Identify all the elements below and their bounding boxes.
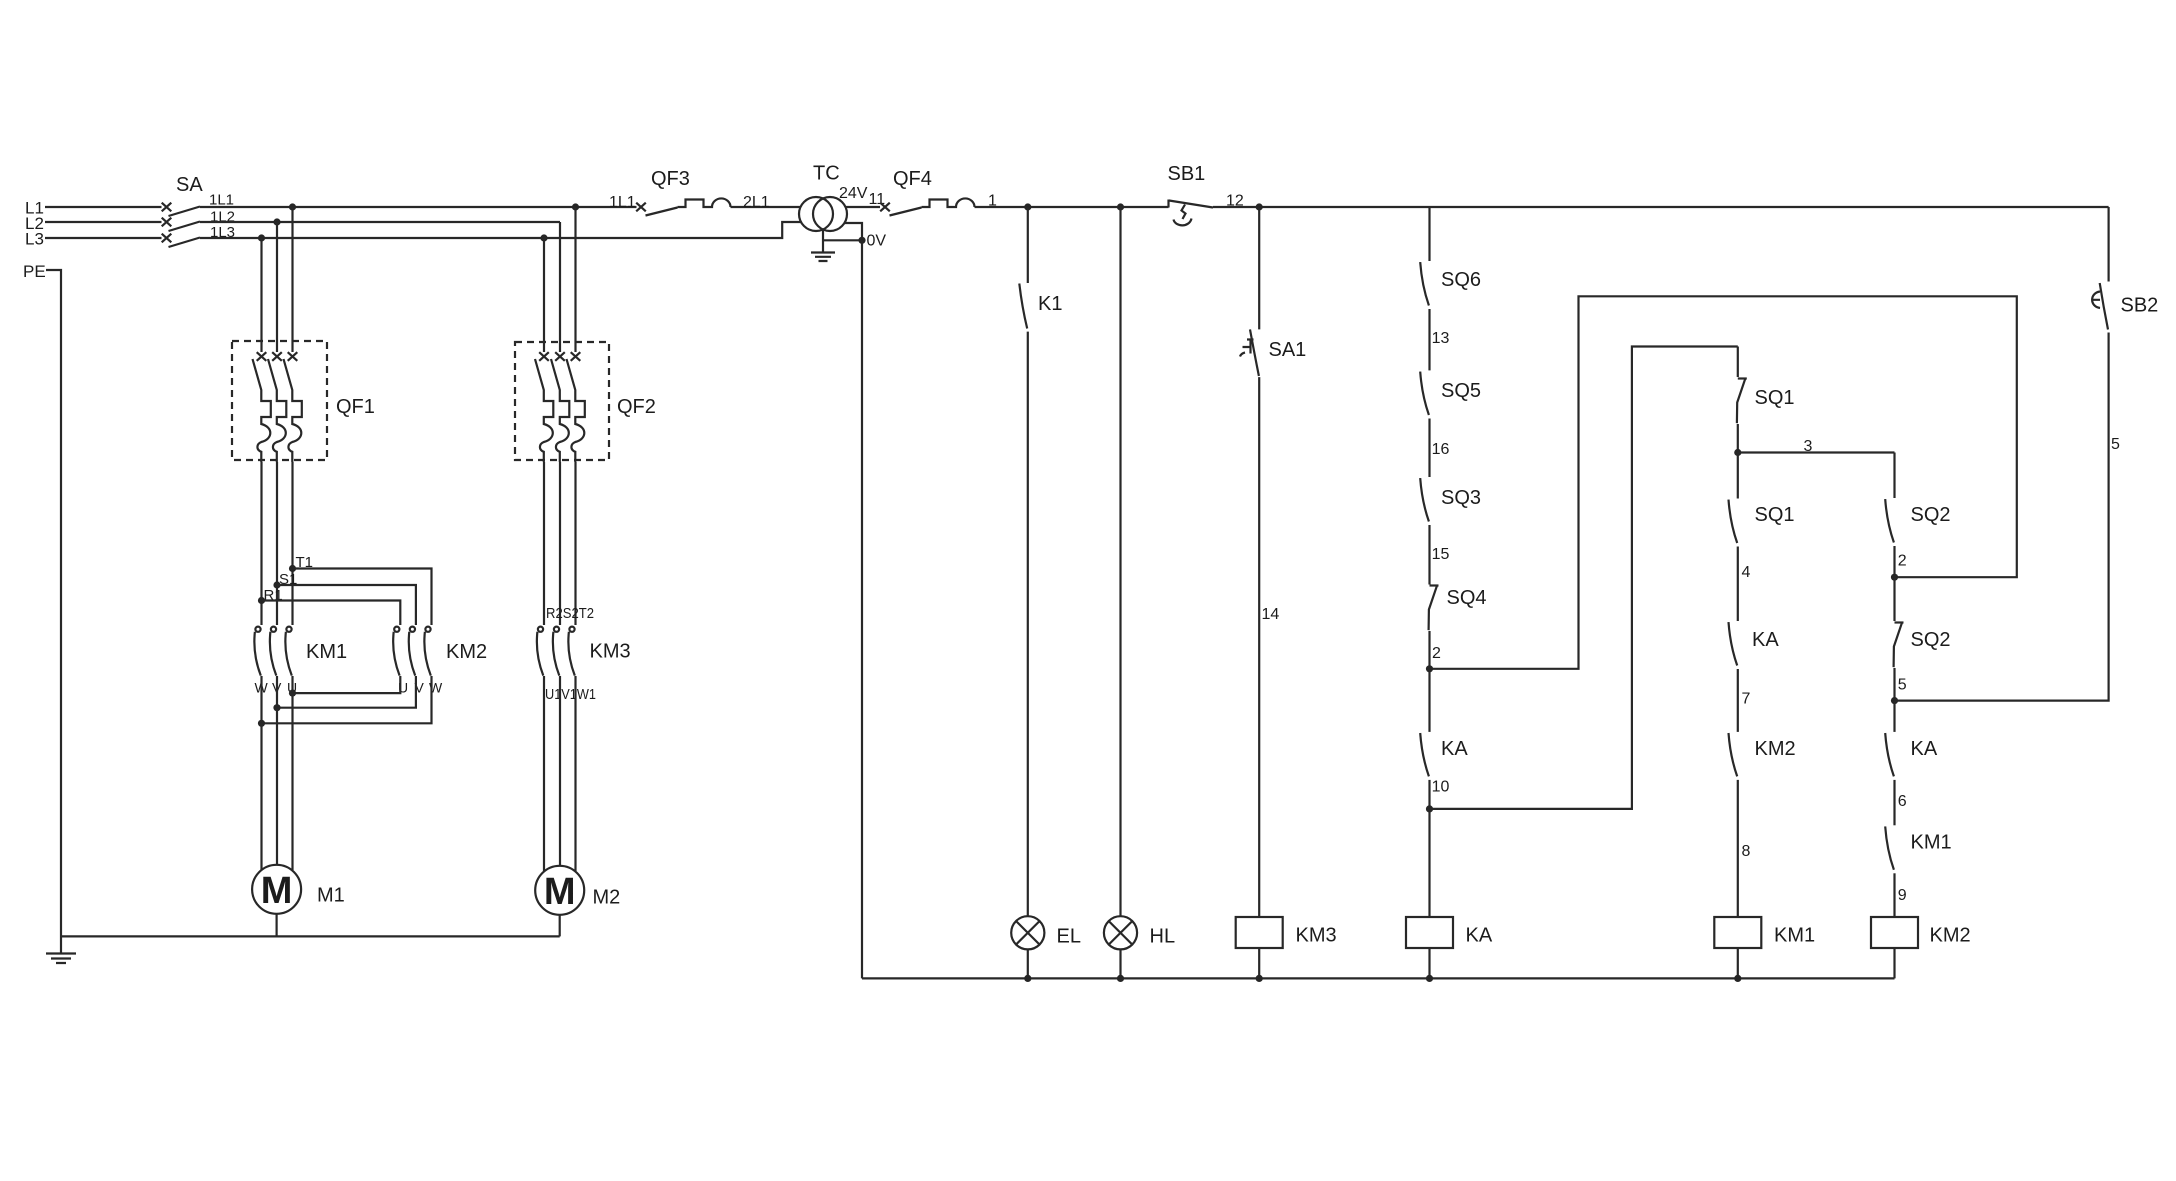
wire SQ1 chain top xyxy=(1737,347,1739,378)
contactor KM2 pole 1 xyxy=(393,627,399,676)
breaker QF2 dashed box xyxy=(515,342,609,460)
svg-text:KA: KA xyxy=(1441,738,1468,760)
switch SA pole 1 xyxy=(162,203,172,212)
svg-text:KA: KA xyxy=(1466,925,1493,947)
wire 1L2 xyxy=(200,221,560,223)
svg-text:SQ6: SQ6 xyxy=(1441,269,1481,291)
breaker QF3 xyxy=(636,198,730,215)
wire SQ5-SQ3 xyxy=(1428,419,1430,478)
junction dot KM3 bus xyxy=(1256,975,1263,982)
wire SQ4 to node 2 xyxy=(1428,631,1430,669)
lamp HL xyxy=(1104,916,1137,949)
wire SQ3-SQ4 xyxy=(1428,525,1430,585)
svg-text:KM1: KM1 xyxy=(1774,925,1815,947)
svg-text:10: 10 xyxy=(1432,779,1450,796)
svg-text:PE: PE xyxy=(23,262,46,281)
svg-text:KA: KA xyxy=(1911,738,1938,760)
pushbutton SB1 (NC) xyxy=(1169,200,1214,226)
svg-text:SQ2: SQ2 xyxy=(1911,504,1951,526)
svg-text:7: 7 xyxy=(1742,691,1751,708)
svg-text:QF2: QF2 xyxy=(617,396,656,418)
wire M2 to PE bus xyxy=(559,915,561,937)
wire HL branch xyxy=(1119,207,1121,916)
wire SQ6-SQ5 xyxy=(1428,309,1430,370)
breaker QF2 pole 3 xyxy=(567,352,585,462)
coil KA xyxy=(1406,917,1453,948)
svg-text:KM1: KM1 xyxy=(1911,832,1952,854)
wire K1 to EL xyxy=(1027,332,1029,917)
junction dot KM3 branch xyxy=(1256,203,1263,210)
relay contact KA (NO, SQ2 chain) xyxy=(1885,733,1894,776)
svg-text:M: M xyxy=(261,870,293,912)
junction dot R1 xyxy=(258,597,265,604)
svg-text:QF3: QF3 xyxy=(651,168,690,190)
limit switch SQ5 (NO) xyxy=(1420,372,1429,415)
wire SQ1 to KA xyxy=(1737,547,1739,622)
junction dot 0V xyxy=(858,237,865,244)
svg-text:M: M xyxy=(544,871,576,913)
wire KM1 coil to bus xyxy=(1737,948,1739,978)
wire K1 branch upper xyxy=(1027,207,1029,283)
junction dot S1 xyxy=(273,581,280,588)
wire drop to QF1 pole3 xyxy=(291,207,293,352)
breaker QF1 pole 2 xyxy=(268,352,286,462)
wire TC center tap xyxy=(822,230,824,253)
wire node10 link to SQ1 chain xyxy=(1430,347,1738,809)
breaker QF1 pole 3 xyxy=(284,352,302,462)
motor M2 xyxy=(535,866,584,915)
contactor KM3 pole 3 xyxy=(568,627,574,676)
wire KM3 branch upper xyxy=(1258,207,1260,329)
svg-text:KM3: KM3 xyxy=(1296,925,1337,947)
svg-text:SA: SA xyxy=(176,174,203,196)
svg-text:13: 13 xyxy=(1432,330,1450,347)
relay contact KA (NO, SQ1 chain) xyxy=(1729,622,1738,665)
wire drop to QF2 pole2 xyxy=(559,222,561,352)
wire TC secondary bottom to 0V xyxy=(844,223,862,240)
junction dot L3 tap QF1 xyxy=(258,234,265,241)
svg-text:8: 8 xyxy=(1742,843,1751,860)
pushbutton SB2 (NO) xyxy=(2092,283,2108,330)
svg-text:KM2: KM2 xyxy=(1755,738,1796,760)
svg-text:9: 9 xyxy=(1898,887,1907,904)
junction dot L1 tap QF2 xyxy=(572,203,579,210)
wire SQ6 branch upper xyxy=(1428,207,1430,261)
svg-text:QF1: QF1 xyxy=(336,396,375,418)
wire drop to QF1 pole1 xyxy=(260,238,262,352)
junction dot L3 tap QF2 xyxy=(540,234,547,241)
contactor aux contact KM2 (NO) xyxy=(1729,733,1738,776)
junction dot node 5 xyxy=(1891,697,1898,704)
junction dot U xyxy=(289,690,296,697)
svg-text:QF4: QF4 xyxy=(893,168,932,190)
wire node5 to KA xyxy=(1893,701,1895,732)
junction dot L1 tap QF1 xyxy=(289,203,296,210)
wire control bottom bus xyxy=(862,977,1895,979)
wire KM1 pole3 to M1 xyxy=(291,693,293,870)
svg-text:5: 5 xyxy=(1898,677,1907,694)
svg-text:2: 2 xyxy=(1432,645,1441,662)
wire node2b to SQ2 NC xyxy=(1893,577,1895,621)
junction dot EL bus xyxy=(1024,975,1031,982)
wire QF1 pole2 to KM1 xyxy=(276,462,278,625)
svg-text:HL: HL xyxy=(1150,926,1176,948)
switch SA1 (NC) xyxy=(1240,329,1259,376)
wire KM1 to KM2 coil xyxy=(1893,873,1895,917)
junction dot HL bus xyxy=(1117,975,1124,982)
wire drop to QF1 pole2 xyxy=(276,222,278,352)
svg-text:14: 14 xyxy=(1262,606,1280,623)
transformer TC secondary winding xyxy=(813,197,847,231)
junction dot node 3 xyxy=(1734,449,1741,456)
coil KM2 xyxy=(1871,917,1918,948)
wire L2 incoming xyxy=(45,221,162,223)
svg-text:M1: M1 xyxy=(317,885,345,907)
limit switch SQ2 (NO) xyxy=(1885,499,1894,542)
svg-text:U1V1W1: U1V1W1 xyxy=(545,686,596,703)
ground TC earth symbol xyxy=(811,253,835,262)
breaker QF2 pole 1 xyxy=(535,352,553,462)
wire S1 to KM2 pole2 xyxy=(277,585,416,625)
switch SA pole 2 xyxy=(162,218,172,227)
wire control bus top xyxy=(975,206,1169,208)
wire 1L1 bus xyxy=(200,206,637,208)
coil KM1 xyxy=(1714,917,1761,948)
svg-text:SQ4: SQ4 xyxy=(1447,587,1487,609)
wire L1 incoming xyxy=(45,206,162,208)
limit switch SQ4 (NC) xyxy=(1429,585,1439,630)
svg-text:L3: L3 xyxy=(25,230,44,249)
wire SQ2 NC to node 5 xyxy=(1893,668,1895,701)
wire KM3 pole1 to M2 xyxy=(543,676,545,871)
wire control bus to SB2 xyxy=(1213,206,2109,208)
wire node3 link to SQ2 chain xyxy=(1738,451,1895,453)
svg-text:2: 2 xyxy=(1898,553,1907,570)
wire L3 incoming xyxy=(45,237,162,239)
junction dot W xyxy=(258,720,265,727)
limit switch SQ1 (NC) xyxy=(1737,378,1747,423)
wire drop to QF2 pole3 xyxy=(574,207,576,352)
wire KM3 pole2 to M2 xyxy=(559,676,561,866)
coil KM3 xyxy=(1236,917,1283,948)
breaker QF4 xyxy=(880,198,974,215)
wire QF2 pole2 to KM3 xyxy=(559,462,561,625)
wire TC secondary to QF4 xyxy=(846,206,881,208)
relay contact KA (NO, SQ6 chain) xyxy=(1420,733,1429,776)
limit switch SQ3 (NO) xyxy=(1420,478,1429,521)
svg-text:KM2: KM2 xyxy=(1930,925,1971,947)
wire KM1 W to KM2 bottom3 xyxy=(262,676,432,723)
svg-text:SB2: SB2 xyxy=(2121,295,2159,317)
wire PE bus xyxy=(61,935,560,937)
wire KA to KM2 contact xyxy=(1737,669,1739,732)
wire SQ2 to node 2b xyxy=(1893,546,1895,577)
contact K1 (NO) xyxy=(1019,284,1027,329)
wire M1 to PE bus xyxy=(276,914,278,937)
contactor KM2 pole 2 xyxy=(409,627,415,676)
wire QF2 pole1 to KM3 xyxy=(543,462,545,625)
breaker QF2 pole 2 xyxy=(551,352,569,462)
wire KA coil to bus xyxy=(1428,948,1430,978)
svg-text:EL: EL xyxy=(1057,926,1081,948)
contactor KM3 pole 1 xyxy=(537,627,543,676)
junction dot K1 branch xyxy=(1024,203,1031,210)
junction dot V xyxy=(273,704,280,711)
transformer TC primary winding xyxy=(799,197,833,231)
wire KA to node 10 xyxy=(1428,780,1430,809)
wire KM1 pole1 to M1 xyxy=(260,723,262,870)
wire QF3 to TC xyxy=(731,206,802,208)
contactor KM1 pole 2 xyxy=(270,627,276,676)
wire node3 to SQ1 NO xyxy=(1737,453,1739,499)
wire KM2 to KM1 coil xyxy=(1737,780,1739,917)
wire KM1 V to KM2 bottom2 xyxy=(277,676,416,708)
wire KM3 pole3 to M2 xyxy=(574,676,576,871)
svg-text:4: 4 xyxy=(1742,564,1751,581)
wire KA to KM1 contact xyxy=(1893,780,1895,825)
svg-text:KA: KA xyxy=(1752,629,1779,651)
contactor KM1 pole 1 xyxy=(254,627,260,676)
svg-text:SQ3: SQ3 xyxy=(1441,487,1481,509)
wire EL to bus xyxy=(1027,949,1029,978)
breaker QF1 dashed box xyxy=(232,341,327,460)
wire node2 link to SQ2 chain xyxy=(1430,296,2017,669)
contactor aux contact KM1 (NO) xyxy=(1885,826,1894,869)
wire SQ1 to node 3 xyxy=(1737,424,1739,453)
contactor KM1 pole 3 xyxy=(285,627,291,676)
wire KM2 coil to bus corner xyxy=(1893,948,1895,978)
svg-text:0V: 0V xyxy=(867,233,887,250)
contactor KM2 pole 3 xyxy=(424,627,430,676)
breaker QF1 pole 1 xyxy=(253,352,271,462)
svg-text:SQ1: SQ1 xyxy=(1755,504,1795,526)
wire 0V rail xyxy=(861,240,863,978)
svg-text:K1: K1 xyxy=(1038,293,1062,315)
wire PE xyxy=(46,270,61,953)
limit switch SQ2 (NC) xyxy=(1894,622,1904,667)
svg-text:6: 6 xyxy=(1898,793,1907,810)
ground PE earth symbol xyxy=(46,954,76,964)
svg-text:16: 16 xyxy=(1432,441,1450,458)
junction dot HL branch xyxy=(1117,203,1124,210)
motor M1 xyxy=(252,865,301,914)
wire QF2 pole3 to KM3 xyxy=(574,462,576,625)
wire KM3 coil to bus xyxy=(1258,948,1260,978)
wire T1 to KM2 pole3 xyxy=(293,569,432,626)
wire node2 to KA xyxy=(1428,669,1430,732)
svg-text:KM3: KM3 xyxy=(590,641,631,663)
wire KM1 pole2 to M1 xyxy=(276,708,278,865)
svg-text:15: 15 xyxy=(1432,546,1450,563)
junction dot KM1 bus xyxy=(1734,975,1741,982)
svg-text:KM1: KM1 xyxy=(306,641,347,663)
svg-text:SQ1: SQ1 xyxy=(1755,387,1795,409)
wire SB2 branch upper xyxy=(2108,207,2110,282)
svg-text:SQ2: SQ2 xyxy=(1911,629,1951,651)
junction dot node 2b xyxy=(1891,574,1898,581)
wire node10 to KA coil xyxy=(1428,809,1430,917)
wire SA1 to KM3 coil xyxy=(1258,377,1260,917)
wire QF1 pole3 to KM1 xyxy=(291,462,293,625)
svg-text:SB1: SB1 xyxy=(1168,163,1206,185)
svg-text:1L1: 1L1 xyxy=(609,194,636,211)
limit switch SQ6 (NO) xyxy=(1420,262,1429,305)
junction dot node 2 xyxy=(1426,665,1433,672)
wire 1L3 to transformer xyxy=(200,222,801,238)
svg-text:24V: 24V xyxy=(839,185,868,202)
wire TC center to 0V xyxy=(823,239,862,241)
contactor KM3 pole 2 xyxy=(553,627,559,676)
junction dot L2 tap QF1 xyxy=(273,218,280,225)
junction dot KA bus xyxy=(1426,975,1433,982)
wire SQ2 chain top xyxy=(1893,453,1895,499)
wire drop to QF2 pole1 xyxy=(543,238,545,352)
svg-text:M2: M2 xyxy=(593,887,621,909)
junction dot T1 xyxy=(289,565,296,572)
switch SA pole 3 xyxy=(162,234,172,243)
svg-text:R2S2T2: R2S2T2 xyxy=(546,605,594,622)
wire R1 to KM2 pole1 xyxy=(262,601,401,626)
wire QF1 pole1 to KM1 xyxy=(260,462,262,625)
wire KM1 U to KM2 bottom1 xyxy=(293,676,401,693)
svg-text:SQ5: SQ5 xyxy=(1441,380,1481,402)
junction dot node 10 xyxy=(1426,805,1433,812)
svg-text:5: 5 xyxy=(2111,436,2120,453)
wire HL to bus xyxy=(1119,949,1121,978)
svg-text:KM2: KM2 xyxy=(446,641,487,663)
lamp EL xyxy=(1011,916,1044,949)
svg-text:TC: TC xyxy=(813,163,840,185)
limit switch SQ1 (NO) xyxy=(1729,500,1738,543)
svg-text:2L1: 2L1 xyxy=(743,194,770,211)
svg-text:SA1: SA1 xyxy=(1269,339,1307,361)
wire SB2 to node 5 xyxy=(1895,333,2109,701)
